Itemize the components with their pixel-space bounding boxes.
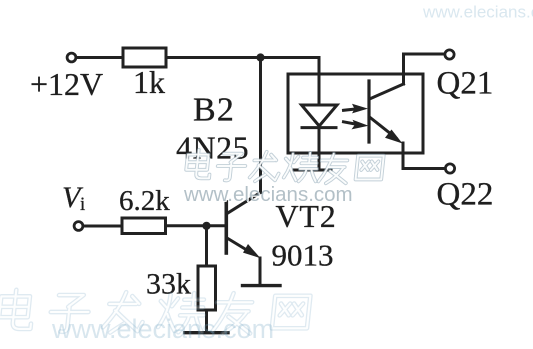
resistor 33k [198,266,216,310]
watermark middle chinese 电子发烧友网 [185,150,383,183]
wire 33k top [205,226,208,266]
light arrow 1 [344,104,369,114]
svg-text:Q22: Q22 [437,177,494,213]
terminal +12V [67,53,76,62]
wire LED cathode [318,128,321,170]
watermark bottom-left chinese [0,290,310,334]
wire LED anode [318,58,321,106]
wire Q21 [404,53,445,56]
wire Q22 [403,167,445,170]
svg-text:B2: B2 [193,92,235,129]
wire [83,225,122,228]
ground emitter [243,284,281,287]
terminal Q22 [445,164,454,173]
svg-text:9013: 9013 [272,238,334,273]
terminal Vi [74,222,83,231]
light arrow 2 [344,120,369,130]
wire [166,224,226,227]
transistor VT2 [225,202,229,253]
wire cathode horizontal [294,169,331,172]
svg-text:i: i [80,194,85,215]
terminal Q21 [445,50,454,59]
svg-text:+12V: +12V [30,66,103,102]
watermark middle url www.elecians.com [183,183,354,207]
node junction at VT2 base [202,222,210,230]
optocoupler B2 4N25 body [288,74,423,153]
node junction on +12V rail [256,53,264,61]
resistor 1k [123,48,166,67]
svg-text:6.2k: 6.2k [119,185,170,217]
resistor 6.2k [122,218,166,234]
svg-text:www.elecians.com: www.elecians.com [422,3,533,22]
wire emitter [259,258,262,285]
svg-text:1k: 1k [133,64,165,100]
svg-text:www.elecians.com: www.elecians.com [51,314,274,344]
phototransistor inside B2 [367,81,370,142]
svg-text:www.elecians.com: www.elecians.com [183,183,353,206]
svg-text:Q21: Q21 [437,66,494,102]
LED diode inside B2 [302,105,338,126]
wire [166,56,319,59]
wire [76,56,123,59]
ground 33k [185,331,228,334]
wire 33k bottom [205,310,208,332]
wire collector vertical [259,58,262,193]
